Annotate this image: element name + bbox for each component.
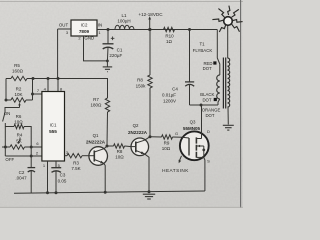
svg-text:DOT: DOT — [202, 97, 211, 102]
svg-text:OUT: OUT — [59, 23, 69, 28]
svg-text:1200V: 1200V — [163, 98, 176, 103]
capacitor C3 0.05 — [51, 161, 67, 194]
wiper of R4 — [18, 138, 21, 145]
svg-text:C4: C4 — [172, 87, 178, 92]
node pin4 riser — [44, 77, 50, 92]
wire left rail — [5, 79, 7, 101]
svg-text:10Ω: 10Ω — [162, 146, 171, 151]
svg-text:180Ω: 180Ω — [91, 103, 103, 108]
border frame (decorative) — [0, 0, 243, 208]
wire Q1 collector to node — [104, 145, 109, 149]
svg-text:1Ω: 1Ω — [166, 39, 173, 44]
svg-text:.0047: .0047 — [15, 176, 27, 181]
label G — [175, 131, 178, 136]
wire switch to R6/R4 — [4, 123, 6, 156]
svg-text:OFF: OFF — [5, 157, 14, 162]
svg-text:C2: C2 — [19, 170, 25, 175]
red dot marker — [203, 61, 217, 71]
wire pin3 output — [65, 150, 69, 156]
resistor R8 10ohm — [107, 144, 131, 160]
transistor Q1 2N2222A — [86, 133, 108, 165]
svg-text:160Ω: 160Ω — [12, 69, 24, 74]
svg-text:C3: C3 — [60, 173, 66, 178]
wire IC2 GND to ground — [84, 36, 108, 61]
svg-text:T1: T1 — [199, 41, 205, 46]
svg-text:10Ω: 10Ω — [14, 119, 23, 124]
svg-text:S: S — [207, 159, 210, 164]
wire OUT drop to 555 — [57, 29, 59, 79]
wiper of R2 — [5, 103, 21, 112]
svg-text:FLYBACK: FLYBACK — [193, 48, 213, 53]
svg-text:0.01µF: 0.01µF — [162, 93, 176, 98]
svg-text:7809: 7809 — [79, 29, 90, 34]
resistor R3 7.5K — [67, 154, 89, 172]
label ORANGE DOT — [202, 107, 221, 118]
arrow heatsink — [179, 156, 182, 164]
wire drain node — [190, 104, 219, 106]
svg-text:D: D — [207, 129, 210, 134]
svg-text:R7: R7 — [93, 97, 99, 102]
label HEATSINK — [162, 168, 189, 173]
secondary winding of T1 — [228, 58, 230, 107]
wire Q2 collector to node — [145, 135, 152, 140]
wire rail to primary — [217, 30, 220, 76]
wire pin2 link — [5, 147, 42, 158]
wire secondary to ground — [227, 107, 229, 125]
wire Q3 source to rail — [204, 157, 205, 191]
svg-text:R10: R10 — [165, 34, 174, 39]
svg-text:IC1: IC1 — [50, 122, 57, 127]
resistor R8 150k — [136, 28, 153, 137]
core of T1 — [223, 58, 225, 109]
ground under C1 — [103, 60, 113, 72]
resistor R5 160ohm — [11, 63, 27, 81]
svg-text:+12-18VDC: +12-18VDC — [138, 12, 163, 17]
wire IC2 IN lead — [97, 29, 108, 31]
svg-text:GND: GND — [84, 36, 94, 41]
resistor R6 10ohm — [5, 114, 31, 147]
node R4 left — [4, 146, 7, 149]
svg-text:R9: R9 — [164, 140, 170, 145]
svg-text:Q2: Q2 — [133, 123, 139, 128]
label OUT pin 3 — [59, 23, 69, 35]
wire +9V rail — [6, 78, 108, 80]
svg-text:DOT: DOT — [203, 66, 212, 71]
label GND pin 2 — [78, 36, 94, 41]
svg-text:Q3: Q3 — [190, 120, 196, 125]
svg-text:7.5K: 7.5K — [71, 166, 80, 171]
svg-text:555: 555 — [49, 129, 57, 134]
wire +9V to R7 — [107, 79, 110, 99]
svg-text:R2: R2 — [16, 86, 22, 91]
resistor R7 180ohm — [91, 97, 110, 112]
wire pin1 to ground rail — [43, 161, 49, 194]
wire Q2 emitter to ground — [144, 154, 150, 193]
label IN pin 1 — [98, 23, 102, 35]
svg-text:150k: 150k — [136, 84, 147, 89]
regulator IC2 7809 — [71, 20, 97, 36]
svg-text:220µF: 220µF — [109, 53, 122, 58]
inductor L1 — [115, 13, 134, 30]
ground below rail — [143, 194, 155, 199]
node +12-18VDC supply arrow — [138, 12, 163, 31]
svg-text:ORANGE: ORANGE — [202, 107, 221, 112]
svg-text:10Ω: 10Ω — [115, 154, 124, 159]
capacitor C1 220uF — [103, 28, 123, 61]
spark rays — [212, 6, 242, 32]
svg-text:HEATSINK: HEATSINK — [162, 168, 189, 173]
resistor R9 10ohm — [150, 135, 182, 151]
svg-text:BLACK: BLACK — [200, 92, 214, 97]
svg-text:100µH: 100µH — [117, 19, 130, 24]
svg-text:L1: L1 — [121, 13, 127, 18]
vertical to pin7 — [32, 77, 35, 100]
svg-text:Q1: Q1 — [93, 133, 99, 138]
svg-text:R5: R5 — [14, 63, 20, 68]
svg-text:R3: R3 — [73, 161, 79, 166]
wire top +12V rail — [97, 29, 217, 31]
svg-text:IN: IN — [98, 23, 102, 28]
black dot marker — [200, 92, 217, 103]
wire IC2 OUT lead — [58, 28, 71, 30]
wire ground rail — [14, 191, 205, 193]
resistor R10 — [164, 27, 175, 44]
svg-text:55MN05: 55MN05 — [183, 126, 201, 131]
capacitor C2 .0047 — [15, 156, 35, 193]
timer IC1 555 — [42, 92, 65, 162]
node pin8 riser — [57, 77, 63, 92]
resistor R4 5K pot — [2, 133, 42, 150]
svg-text:R4: R4 — [17, 133, 23, 138]
svg-text:2N2222A: 2N2222A — [128, 130, 148, 135]
wire pin 7 of IC1 — [31, 88, 42, 95]
wire Q1 emitter down — [104, 163, 107, 194]
wire R7 to Q1 collector node — [106, 112, 109, 146]
label T1 FLYBACK — [193, 41, 213, 53]
HV terminal ball — [224, 17, 233, 58]
svg-text:2N2222A: 2N2222A — [86, 140, 106, 145]
svg-text:10K: 10K — [14, 92, 22, 97]
capacitor C4 0.01uF 1200V — [162, 28, 194, 105]
svg-text:DOT: DOT — [205, 113, 214, 118]
transistor Q3 55MN05 MOSFET — [180, 120, 210, 164]
wire Q3 drain — [200, 104, 203, 139]
svg-text:R8: R8 — [137, 78, 143, 83]
node R4 right — [30, 146, 33, 149]
svg-text:C1: C1 — [117, 47, 123, 52]
transistor Q2 2N2222A — [128, 123, 149, 155]
wire primary to drain node — [218, 99, 220, 105]
svg-text:IC2: IC2 — [81, 22, 88, 27]
label OFF — [5, 157, 14, 162]
svg-text:0.05: 0.05 — [58, 178, 67, 183]
svg-text:G: G — [175, 131, 178, 136]
primary winding of T1 — [217, 75, 220, 99]
node R2 left — [5, 99, 8, 102]
switch S1 ON position — [3, 111, 11, 122]
ground under T1 — [223, 125, 234, 130]
resistor R2 10K pot — [6, 86, 33, 102]
